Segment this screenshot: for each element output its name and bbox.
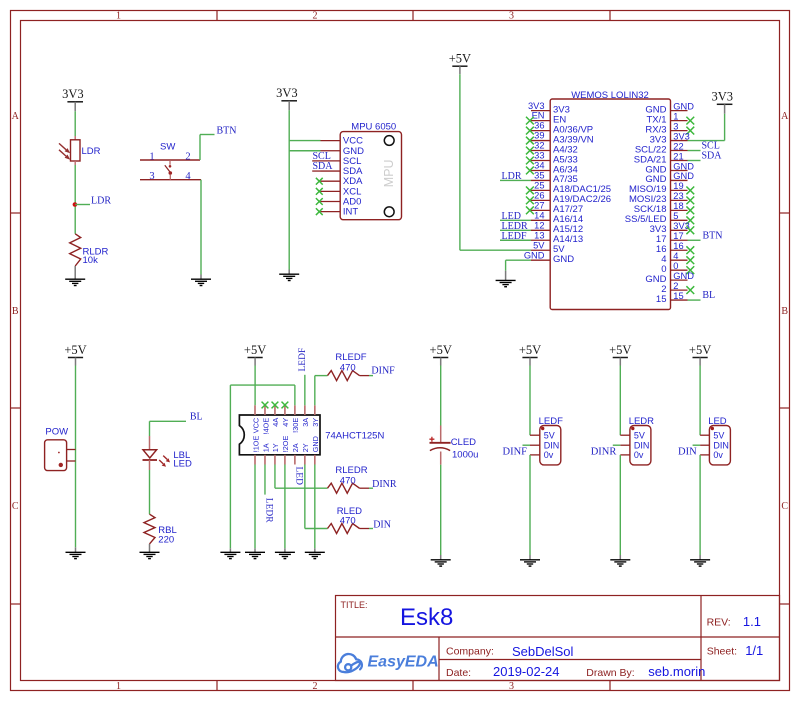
- ground (1OE): [245, 548, 265, 558]
- photoresistor LDR: [59, 136, 101, 165]
- WEMOS left pin 25: [526, 181, 611, 196]
- svg-text:19: 19: [673, 181, 683, 191]
- svg-text:DINR: DINR: [591, 447, 617, 458]
- svg-text:0: 0: [673, 261, 678, 271]
- svg-text:2A: 2A: [291, 443, 300, 452]
- WEMOS right pin GND: [645, 161, 694, 175]
- WEMOS right pin 18: [634, 201, 694, 215]
- svg-text:MPU 6050: MPU 6050: [351, 121, 396, 132]
- ground (LEDR): [610, 555, 630, 566]
- svg-text:!1OE: !1OE: [251, 436, 260, 453]
- WEMOS left pin 34: [526, 161, 578, 176]
- svg-text:16: 16: [673, 241, 683, 251]
- svg-text:GND: GND: [553, 254, 574, 265]
- +5V power (LEDF): [519, 343, 541, 366]
- WEMOS right pin 3V3: [650, 131, 690, 145]
- svg-text:470: 470: [340, 363, 356, 374]
- svg-text:SW: SW: [160, 142, 175, 153]
- EasyEDA logo: [338, 654, 362, 672]
- net label SCL (WEMOS): [688, 150, 701, 152]
- WEMOS left pin 5V: [531, 240, 565, 255]
- wire +5V to WEMOS 5V pin: [459, 74, 461, 250]
- net label DINR (LEDR): [613, 444, 621, 446]
- ground (LEDF): [520, 555, 540, 566]
- WEMOS right pin 1: [646, 111, 694, 125]
- wire ground rail to !30E: [230, 384, 294, 386]
- +5V power (74AHCT125N): [244, 343, 266, 366]
- 3V3 power symbol (LDR branch): [62, 87, 84, 111]
- svg-text:+5V: +5V: [519, 343, 541, 357]
- WEMOS left pin 12: [500, 220, 583, 235]
- wire !1OE to ground: [254, 465, 256, 549]
- svg-text:!2OE: !2OE: [281, 436, 290, 453]
- wire 2Y to RLED: [304, 465, 306, 529]
- WEMOS right pin 17: [656, 231, 688, 245]
- wire +5V to VCC pin: [254, 366, 256, 406]
- svg-text:27: 27: [534, 200, 544, 210]
- svg-text:3: 3: [509, 11, 514, 22]
- svg-text:32: 32: [534, 141, 544, 151]
- WEMOS right pin 3: [645, 121, 694, 135]
- ground (LED): [690, 555, 710, 566]
- wire +5V to LEDF 5V pin: [529, 366, 531, 436]
- +5V power (LEDR): [609, 343, 631, 366]
- wire LEDR 0v to ground: [619, 455, 621, 555]
- net label DINR (RLEDR): [369, 487, 373, 489]
- svg-text:4A: 4A: [271, 418, 280, 427]
- svg-text:+5V: +5V: [244, 343, 266, 357]
- svg-text:GND: GND: [673, 101, 694, 111]
- svg-text:3Y: 3Y: [311, 418, 320, 427]
- ground (RLDR): [65, 266, 85, 286]
- wire CLED to ground: [440, 465, 442, 555]
- svg-text:220: 220: [158, 535, 174, 546]
- wire GND pin to ground: [314, 465, 316, 549]
- wire 1A to LEDR label: [264, 465, 266, 495]
- svg-text:LDR: LDR: [91, 196, 111, 207]
- svg-text:DIN: DIN: [544, 441, 560, 451]
- svg-text:5V: 5V: [713, 431, 724, 441]
- svg-text:3V3: 3V3: [712, 90, 734, 104]
- 3V3 power (WEMOS right): [712, 90, 734, 114]
- +5V power (LED): [689, 343, 711, 366]
- wire LDR to RLDR: [74, 165, 76, 234]
- WEMOS right pin 5: [625, 211, 694, 225]
- svg-text:DIN: DIN: [373, 519, 391, 530]
- svg-text:VCC: VCC: [251, 418, 260, 433]
- +5V power (CLED): [430, 343, 452, 366]
- WEMOS right pin GND: [645, 101, 694, 115]
- wire to MPU VCC: [289, 140, 320, 142]
- svg-text:25: 25: [534, 181, 544, 191]
- svg-text:MPU: MPU: [382, 159, 396, 187]
- net label DINF (LEDF): [523, 444, 531, 446]
- svg-text:1: 1: [116, 11, 121, 22]
- wire LED to RBL: [149, 470, 151, 514]
- wire SW pin2 to BTN: [199, 135, 201, 161]
- wire WEMOS GND to ground: [506, 259, 531, 261]
- WEMOS right pin 4: [661, 251, 694, 265]
- svg-text:26: 26: [534, 190, 544, 200]
- svg-text:TITLE:: TITLE:: [341, 600, 368, 610]
- svg-text:2: 2: [185, 151, 190, 162]
- ground (IC GND): [305, 548, 325, 558]
- svg-text:0v: 0v: [634, 450, 644, 460]
- svg-text:15: 15: [673, 291, 683, 301]
- svg-text:13: 13: [534, 230, 544, 240]
- svg-text:+5V: +5V: [609, 343, 631, 357]
- WEMOS right pin 22: [635, 141, 688, 155]
- svg-text:DIN: DIN: [634, 441, 650, 451]
- svg-text:seb.morin: seb.morin: [648, 664, 705, 679]
- 3V3 power symbol (MPU): [276, 86, 298, 110]
- module MPU 6050: [316, 121, 402, 219]
- svg-text:4Y: 4Y: [281, 418, 290, 427]
- svg-text:14: 14: [534, 210, 544, 220]
- svg-text:2: 2: [313, 681, 318, 692]
- svg-text:BTN: BTN: [703, 231, 723, 242]
- svg-text:LED: LED: [173, 458, 192, 469]
- wire +5V to LEDR 5V pin: [619, 366, 621, 436]
- resistor RLEDF 470: [328, 352, 370, 381]
- svg-text:Drawn By:: Drawn By:: [586, 667, 634, 679]
- svg-text:BTN: BTN: [217, 126, 237, 137]
- svg-text:GND: GND: [673, 161, 694, 171]
- svg-text:Company:: Company:: [446, 646, 494, 658]
- ground (SW): [191, 275, 211, 286]
- svg-text:4: 4: [185, 171, 191, 182]
- svg-text:DINF: DINF: [371, 365, 395, 376]
- svg-text:C: C: [781, 501, 788, 512]
- WEMOS right pin 23: [629, 191, 694, 205]
- ground (RBL): [140, 544, 160, 559]
- svg-text:A: A: [12, 111, 20, 122]
- svg-text:!30E: !30E: [291, 418, 300, 433]
- svg-text:GND: GND: [524, 250, 545, 260]
- svg-text:2019-02-24: 2019-02-24: [493, 664, 560, 679]
- svg-text:1: 1: [116, 681, 121, 692]
- svg-text:BL: BL: [702, 290, 715, 301]
- svg-text:LEDR: LEDR: [263, 498, 273, 523]
- svg-text:23: 23: [673, 191, 683, 201]
- wire 3V3 rail MPU: [288, 110, 290, 269]
- svg-text:GND: GND: [673, 271, 694, 281]
- svg-text:1Y: 1Y: [271, 443, 280, 452]
- net label LDR: [75, 204, 90, 206]
- wire WEMOS 3V3 pin to 3V3: [688, 140, 725, 142]
- svg-text:INT: INT: [343, 207, 359, 218]
- svg-text:3V3: 3V3: [673, 131, 690, 141]
- net label SCL (MPU): [312, 160, 320, 162]
- WEMOS right pin 15: [656, 291, 688, 305]
- svg-text:RLEDR: RLEDR: [335, 465, 367, 476]
- wire 3Y to RLEDF: [314, 376, 316, 406]
- svg-text:C: C: [12, 501, 19, 512]
- svg-text:5V: 5V: [544, 431, 555, 441]
- WEMOS right pin 19: [629, 181, 694, 195]
- WEMOS right pin 2: [661, 281, 694, 295]
- WEMOS left pin 33: [526, 151, 578, 166]
- svg-text:36: 36: [534, 121, 544, 131]
- svg-text:3: 3: [509, 681, 514, 692]
- wire 3A up to LEDF label: [304, 375, 306, 406]
- svg-text:DIN: DIN: [713, 441, 729, 451]
- svg-text:15: 15: [656, 294, 667, 305]
- wire SW pin4 to ground: [200, 180, 202, 275]
- WEMOS left pin 35: [500, 171, 578, 186]
- svg-text:5V: 5V: [634, 431, 645, 441]
- svg-text:Sheet:: Sheet:: [707, 645, 737, 657]
- svg-text:LDR: LDR: [502, 171, 522, 182]
- svg-text:EasyEDA: EasyEDA: [368, 654, 439, 671]
- svg-text:DINF: DINF: [503, 447, 528, 458]
- module WEMOS LOLIN32: [550, 90, 670, 310]
- junction node LDR: [73, 202, 78, 207]
- WEMOS right pin GND: [645, 271, 694, 285]
- ground (2OE): [275, 548, 295, 558]
- wire 1Y to RLEDR: [274, 465, 276, 489]
- svg-text:Date:: Date:: [446, 667, 471, 679]
- svg-text:POW: POW: [45, 426, 68, 437]
- svg-text:+5V: +5V: [430, 343, 452, 357]
- svg-text:LEDF: LEDF: [502, 231, 527, 242]
- svg-text:3V3: 3V3: [62, 87, 84, 101]
- wire !2OE to ground: [284, 465, 286, 549]
- svg-text:470: 470: [340, 516, 356, 527]
- svg-text:1: 1: [673, 111, 678, 121]
- svg-text:1/1: 1/1: [745, 643, 763, 658]
- net label SDA (MPU): [312, 170, 320, 172]
- svg-text:21: 21: [673, 151, 683, 161]
- switch SW: [140, 142, 201, 182]
- svg-text:22: 22: [673, 141, 683, 151]
- wire LED 0v to ground: [699, 455, 701, 555]
- svg-text:+5V: +5V: [64, 343, 86, 357]
- svg-text:12: 12: [534, 220, 544, 230]
- connector LED: [700, 416, 730, 465]
- svg-text:B: B: [781, 306, 788, 317]
- ground (MPU): [279, 270, 299, 281]
- svg-text:!4OE: !4OE: [261, 418, 270, 435]
- resistor RBL 220: [144, 514, 177, 546]
- net label BTN (WEMOS): [688, 239, 701, 241]
- svg-text:1: 1: [149, 151, 154, 162]
- svg-text:A: A: [781, 111, 789, 122]
- svg-text:GND: GND: [311, 436, 320, 452]
- svg-text:RLEDF: RLEDF: [335, 352, 366, 363]
- WEMOS right pin 0: [661, 261, 694, 275]
- net label DIN (LED): [693, 444, 701, 446]
- svg-text:35: 35: [534, 171, 544, 181]
- svg-text:REV:: REV:: [707, 616, 731, 628]
- svg-text:0v: 0v: [713, 450, 723, 460]
- svg-text:DINR: DINR: [372, 479, 397, 490]
- wire BL to LED: [150, 420, 187, 422]
- wire +5V POW rail: [75, 366, 77, 548]
- svg-text:1A: 1A: [261, 443, 270, 452]
- IC 74AHCT125N: [239, 402, 384, 465]
- title block: [336, 596, 780, 681]
- wire +5V to CLED: [440, 366, 442, 426]
- svg-text:1000u: 1000u: [452, 450, 478, 461]
- svg-text:33: 33: [534, 151, 544, 161]
- resistor RLED 470: [328, 506, 370, 534]
- capacitor CLED 1000u: [429, 426, 478, 465]
- svg-text:+5V: +5V: [449, 52, 471, 66]
- ground (CLED): [431, 555, 451, 566]
- svg-text:470: 470: [340, 476, 356, 487]
- svg-text:BL: BL: [190, 412, 203, 423]
- svg-text:3: 3: [149, 171, 154, 182]
- WEMOS right pin 21: [634, 151, 688, 165]
- ground (IC rail): [220, 548, 240, 558]
- +5V power (WEMOS): [449, 52, 471, 75]
- wire LEDF 0v to ground: [529, 455, 531, 555]
- svg-text:3: 3: [673, 121, 678, 131]
- svg-text:18: 18: [673, 201, 683, 211]
- svg-text:5V: 5V: [533, 240, 545, 250]
- WEMOS right pin 3V3: [650, 221, 695, 235]
- svg-text:10k: 10k: [83, 255, 99, 266]
- net label DIN (RLED): [369, 528, 373, 530]
- ground (WEMOS): [496, 271, 516, 287]
- svg-text:B: B: [12, 306, 19, 317]
- WEMOS right pin GND: [645, 171, 694, 185]
- svg-text:GND: GND: [673, 171, 694, 181]
- switch POW: [45, 426, 76, 470]
- svg-text:39: 39: [534, 131, 544, 141]
- svg-text:DIN: DIN: [678, 447, 697, 458]
- WEMOS left pin EN: [526, 111, 566, 126]
- svg-text:CLED: CLED: [451, 437, 476, 448]
- svg-text:3V3: 3V3: [528, 101, 545, 111]
- svg-text:17: 17: [673, 231, 683, 241]
- net label DINF (RLEDF): [369, 375, 373, 377]
- svg-text:+5V: +5V: [689, 343, 711, 357]
- net label SDA (WEMOS): [688, 160, 701, 162]
- WEMOS left pin 27: [526, 200, 583, 215]
- resistor RLDR 10k: [70, 234, 109, 266]
- WEMOS left pin 14: [500, 210, 583, 225]
- ground (POW rail): [66, 547, 86, 558]
- wire to MPU GND: [289, 150, 320, 152]
- svg-text:EN: EN: [532, 111, 545, 121]
- wire +5V to LED 5V pin: [699, 366, 701, 436]
- LED LBL: [143, 436, 193, 470]
- WEMOS left pin 36: [526, 121, 593, 136]
- svg-text:2Y: 2Y: [301, 443, 310, 452]
- svg-text:34: 34: [534, 161, 544, 171]
- WEMOS left pin 3V3: [528, 101, 570, 116]
- WEMOS left pin 26: [526, 190, 611, 205]
- svg-text:5: 5: [673, 211, 678, 221]
- svg-text:3V3: 3V3: [276, 86, 298, 100]
- svg-text:LDR: LDR: [82, 146, 101, 157]
- svg-text:LED: LED: [294, 467, 304, 486]
- svg-text:1.1: 1.1: [743, 614, 761, 629]
- +5V power (POW): [64, 343, 86, 366]
- net label BL (WEMOS): [688, 299, 701, 301]
- svg-text:SebDelSol: SebDelSol: [512, 644, 574, 659]
- svg-text:2: 2: [313, 11, 318, 22]
- WEMOS left pin 39: [526, 131, 594, 146]
- svg-text:SDA: SDA: [702, 151, 723, 162]
- svg-text:SDA: SDA: [313, 161, 334, 172]
- resistor RLEDR 470: [328, 465, 370, 493]
- svg-text:3A: 3A: [301, 418, 310, 427]
- WEMOS right pin 16: [656, 241, 694, 255]
- svg-text:Esk8: Esk8: [400, 604, 453, 631]
- connector LEDR: [620, 416, 654, 465]
- wire 3V3 to LDR: [74, 111, 76, 136]
- WEMOS left pin 32: [526, 141, 578, 156]
- connector LEDF: [530, 416, 563, 465]
- WEMOS left pin 13: [500, 230, 583, 245]
- svg-text:2: 2: [673, 281, 678, 291]
- svg-text:4: 4: [673, 251, 678, 261]
- svg-text:0v: 0v: [544, 450, 554, 460]
- WEMOS left pin GND: [524, 250, 574, 265]
- svg-text:LEDF: LEDF: [298, 348, 308, 372]
- svg-text:74AHCT125N: 74AHCT125N: [325, 431, 384, 442]
- svg-text:3V3: 3V3: [673, 221, 690, 231]
